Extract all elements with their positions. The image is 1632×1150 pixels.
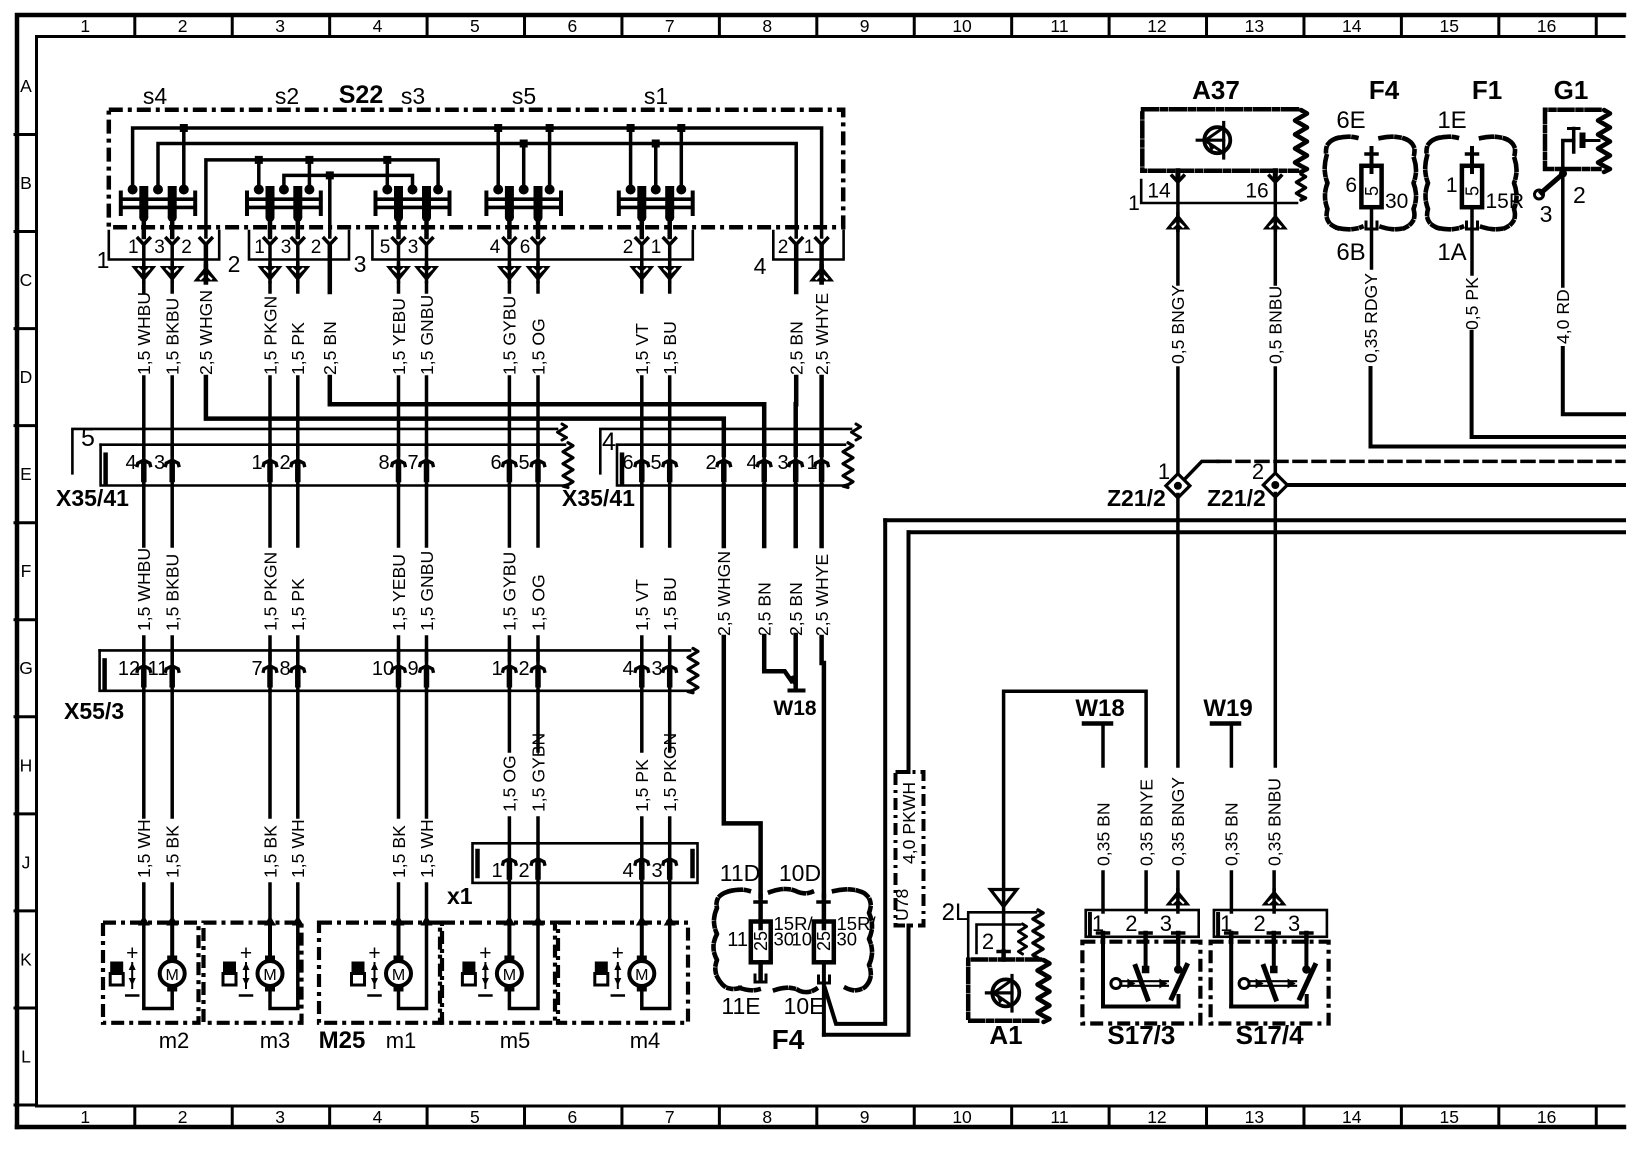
svg-text:8: 8 (378, 452, 389, 474)
connector X35/41 block 5 box (101, 443, 565, 446)
wire 2,5 BN below X35/41-4 pin4 (762, 486, 767, 547)
svg-text:1,5 BU: 1,5 BU (660, 577, 680, 631)
svg-text:1,5 BK: 1,5 BK (389, 825, 409, 878)
switch S17/3 internals (1101, 942, 1105, 1007)
A37 pin 14 feed arrow (1176, 179, 1180, 230)
wire fuse10 to line A (825, 520, 885, 1024)
svg-text:16: 16 (1537, 16, 1556, 36)
wire 0,35 BNGY Z21 to S17/3 (1176, 495, 1180, 767)
svg-text:5: 5 (470, 16, 480, 36)
svg-text:2,5 BN: 2,5 BN (787, 321, 807, 375)
svg-text:10: 10 (791, 929, 812, 950)
svg-text:0,35 BNGY: 0,35 BNGY (1168, 777, 1188, 866)
connector bracket 2 (s2 pins) (249, 231, 349, 260)
svg-text:11: 11 (727, 929, 748, 951)
svg-text:7: 7 (665, 1107, 675, 1127)
svg-text:J: J (22, 852, 31, 872)
svg-text:s4: s4 (143, 83, 168, 109)
svg-text:2: 2 (982, 929, 994, 954)
svg-text:S17/4: S17/4 (1236, 1020, 1304, 1050)
svg-text:1,5 VT: 1,5 VT (632, 579, 652, 631)
wires row D under labels (142, 283, 146, 292)
svg-text:13: 13 (1245, 16, 1264, 36)
svg-text:4,0 PKWH: 4,0 PKWH (899, 782, 919, 864)
svg-text:X35/41: X35/41 (562, 485, 635, 511)
svg-text:M25: M25 (319, 1027, 366, 1054)
svg-text:3: 3 (651, 658, 662, 680)
svg-text:2: 2 (228, 251, 241, 277)
fuse 11 bottom stub 11E (758, 962, 763, 981)
svg-text:3: 3 (354, 251, 367, 277)
svg-text:+: + (612, 942, 624, 965)
svg-text:M: M (635, 967, 648, 984)
svg-text:2: 2 (1252, 459, 1264, 484)
svg-text:1: 1 (251, 452, 262, 474)
wire 0,5 PK to right edge (1472, 332, 1624, 437)
svg-text:6: 6 (1345, 174, 1357, 197)
wire 4,0 PKWH in U78 (907, 532, 911, 772)
fuse 10 bottom wiring (822, 962, 826, 1035)
svg-text:3: 3 (408, 237, 419, 258)
svg-text:2: 2 (178, 1107, 188, 1127)
connector bracket 1 (s4 pins) (109, 231, 219, 260)
wire WHGN reroute to X35/41-4 pin2 (206, 377, 724, 455)
svg-text:10E: 10E (784, 993, 825, 1019)
svg-text:1,5 PK: 1,5 PK (288, 322, 308, 375)
svg-text:2: 2 (705, 452, 716, 474)
svg-text:M: M (392, 967, 405, 984)
switch s1 (617, 193, 621, 215)
svg-text:1: 1 (97, 247, 110, 273)
svg-text:m2: m2 (159, 1028, 190, 1053)
svg-text:2: 2 (311, 237, 322, 258)
window motor m5 box (442, 923, 555, 1023)
switch assembly S22 box (109, 110, 843, 228)
svg-text:s5: s5 (512, 83, 536, 109)
svg-text:9: 9 (860, 16, 870, 36)
svg-text:16: 16 (1245, 180, 1268, 203)
A1 bracket outer (968, 912, 1036, 959)
svg-text:2,5 BN: 2,5 BN (755, 582, 775, 636)
svg-text:14: 14 (1342, 1107, 1362, 1127)
svg-text:1,5 GNBU: 1,5 GNBU (417, 551, 437, 631)
wires x1 to motors (508, 883, 512, 923)
svg-text:14: 14 (1147, 180, 1171, 203)
switch S17/4 internals (1229, 942, 1233, 1007)
svg-text:M: M (166, 967, 179, 984)
svg-text:2,5 BN: 2,5 BN (320, 321, 340, 375)
G1 switch lever (1559, 170, 1567, 178)
svg-text:F4: F4 (1369, 75, 1400, 105)
svg-text:10: 10 (372, 658, 394, 680)
wire 2,5 WHGN to fuse 11D (724, 637, 761, 896)
svg-text:4: 4 (373, 1107, 383, 1127)
svg-text:1,5 GNBU: 1,5 GNBU (417, 295, 437, 375)
svg-text:1,5 YEBU: 1,5 YEBU (389, 554, 409, 631)
dashed wire from Z21/2-1 to right edge (1185, 461, 1218, 478)
connector bracket 3 (s3 s5 s1 pins) (372, 231, 692, 260)
svg-text:6: 6 (520, 237, 531, 258)
node Z21/2 pin 2 (1263, 473, 1287, 497)
svg-text:3: 3 (1288, 911, 1300, 936)
svg-text:W18: W18 (1075, 695, 1124, 722)
svg-text:1E: 1E (1437, 107, 1466, 134)
wires to x1 connector (508, 691, 512, 751)
svg-text:H: H (20, 755, 33, 775)
wire WHYE down to X35/41-4 pin1 (819, 377, 824, 455)
window motor m2 box (103, 923, 199, 1023)
svg-text:16: 16 (1537, 1107, 1556, 1127)
svg-text:2: 2 (778, 237, 789, 258)
svg-text:30: 30 (837, 929, 858, 950)
wire 2,5 WHYE to fuse 10D (819, 637, 824, 663)
svg-text:3: 3 (275, 16, 285, 36)
svg-text:F4: F4 (772, 1024, 805, 1055)
component A37 box (1142, 109, 1297, 171)
pin chevrons below S22 (137, 237, 151, 245)
svg-text:M: M (263, 967, 276, 984)
svg-text:X35/41: X35/41 (56, 485, 129, 511)
svg-text:4: 4 (602, 428, 616, 456)
svg-text:0,35 RDGY: 0,35 RDGY (1361, 273, 1381, 363)
svg-text:0,5 BNBU: 0,5 BNBU (1266, 286, 1286, 364)
svg-text:2: 2 (623, 237, 634, 258)
svg-text:8: 8 (279, 658, 290, 680)
svg-text:1: 1 (80, 16, 90, 36)
wire from Z21/2-2 to right edge (1284, 483, 1624, 487)
motor m5 connector symbol (462, 962, 475, 974)
wire 4,0 RD (1561, 174, 1565, 287)
svg-text:+: + (126, 942, 138, 965)
svg-text:4: 4 (746, 452, 757, 474)
motor m1 connector symbol (352, 962, 365, 974)
svg-text:11E: 11E (721, 993, 760, 1019)
svg-text:4,0 RD: 4,0 RD (1553, 289, 1573, 344)
svg-text:2: 2 (1253, 911, 1265, 936)
svg-text:4: 4 (373, 16, 383, 36)
connector X35/41 block 5 bracket (72, 429, 557, 473)
svg-text:1,5 PK: 1,5 PK (288, 578, 308, 631)
svg-text:1: 1 (804, 237, 815, 258)
svg-text:6: 6 (567, 16, 577, 36)
motor m1 M circle (386, 961, 411, 986)
svg-text:12: 12 (1147, 16, 1166, 36)
svg-text:5: 5 (81, 424, 95, 452)
svg-text:m1: m1 (386, 1028, 417, 1053)
svg-text:6E: 6E (1336, 107, 1365, 134)
svg-text:m3: m3 (260, 1028, 291, 1053)
svg-text:1,5 OG: 1,5 OG (528, 318, 548, 375)
svg-text:15: 15 (1439, 16, 1458, 36)
svg-text:5: 5 (380, 237, 391, 258)
svg-text:1: 1 (1158, 459, 1170, 484)
ground bar W18 middle (790, 689, 804, 693)
svg-text:0,5 BNGY: 0,5 BNGY (1168, 285, 1188, 364)
svg-text:11: 11 (1050, 16, 1068, 36)
window motor m1 box (319, 923, 440, 1023)
svg-text:A: A (20, 76, 32, 96)
connector X55/3 box (100, 649, 690, 652)
ground arrow W18 (787, 675, 797, 688)
A37 bracket pins (1141, 180, 1297, 203)
switch S17/4 connector box (1214, 910, 1327, 937)
svg-text:1,5 WH: 1,5 WH (134, 819, 154, 878)
svg-text:+: + (240, 942, 252, 965)
svg-text:1: 1 (806, 452, 817, 474)
svg-text:6B: 6B (1336, 239, 1365, 266)
svg-text:1: 1 (491, 860, 502, 882)
switch S17/4 box (1211, 942, 1329, 1024)
motor m4 connector symbol (595, 962, 608, 974)
svg-text:M: M (503, 967, 516, 984)
fuse 10 rectangle (814, 922, 834, 963)
svg-text:1,5 GYBU: 1,5 GYBU (500, 552, 520, 631)
svg-text:4: 4 (490, 237, 501, 258)
svg-text:Z21/2: Z21/2 (1207, 485, 1266, 511)
fuse F1 cloud (1425, 138, 1438, 228)
svg-text:2: 2 (279, 452, 290, 474)
svg-text:0,35 BN: 0,35 BN (1093, 802, 1113, 866)
svg-text:3: 3 (651, 860, 662, 882)
wire net line4 in S22 (284, 175, 413, 189)
svg-text:1: 1 (491, 658, 502, 680)
svg-text:4: 4 (622, 860, 633, 882)
switch s2 (245, 193, 249, 215)
wire line B to right edge (909, 530, 1625, 534)
svg-text:14: 14 (1342, 16, 1362, 36)
svg-text:7: 7 (407, 452, 418, 474)
motor m4 wires (636, 916, 648, 926)
svg-text:12: 12 (1147, 1107, 1166, 1127)
svg-text:G: G (19, 658, 33, 678)
svg-text:1A: 1A (1437, 239, 1466, 266)
A37 pin 16 feed arrow (1274, 179, 1278, 230)
svg-text:Z21/2: Z21/2 (1107, 485, 1166, 511)
svg-text:0,35 BN: 0,35 BN (1222, 802, 1242, 866)
wire 2,5 WHYE below X35/41-4 pin1 (819, 486, 824, 547)
wire BN bracket4 pin2 down (794, 245, 799, 293)
svg-text:11: 11 (1050, 1107, 1068, 1127)
svg-text:1,5 WHBU: 1,5 WHBU (134, 548, 154, 631)
component A1 box (968, 960, 1040, 1021)
svg-text:25: 25 (751, 931, 771, 951)
svg-text:30: 30 (1385, 190, 1408, 213)
svg-text:3: 3 (154, 452, 165, 474)
svg-text:2: 2 (1573, 182, 1586, 208)
motor m3 M circle (258, 961, 283, 986)
svg-text:2: 2 (181, 237, 192, 258)
svg-text:1,5 BKBU: 1,5 BKBU (163, 298, 183, 375)
svg-text:m4: m4 (630, 1028, 661, 1053)
svg-text:x1: x1 (447, 883, 473, 909)
fuse F1 rectangle (1462, 166, 1482, 207)
switch S17/3 box (1082, 942, 1200, 1024)
fuse F4 bottom wire (1370, 207, 1374, 268)
svg-text:1,5 PKGN: 1,5 PKGN (260, 552, 280, 631)
svg-text:1,5 PKGN: 1,5 PKGN (260, 296, 280, 375)
svg-text:1: 1 (254, 237, 265, 258)
svg-text:1: 1 (128, 237, 139, 258)
svg-text:1,5 WHBU: 1,5 WHBU (134, 292, 154, 375)
wire net line2 in S22 (158, 144, 796, 238)
svg-text:A1: A1 (989, 1020, 1022, 1050)
svg-text:4: 4 (622, 658, 633, 680)
switch s3 (374, 193, 378, 215)
svg-text:10D: 10D (779, 860, 821, 886)
svg-text:3: 3 (1540, 201, 1553, 227)
wire 0,35 BNBU Z21 to S17/4 (1274, 494, 1278, 767)
svg-text:7: 7 (251, 658, 262, 680)
A37 amplifier symbol (1204, 127, 1230, 153)
wire BN reroute to X35/41-4 pin4 (330, 377, 764, 455)
window motor m4 box (558, 923, 688, 1023)
frame column ticks (133, 15, 136, 37)
G1 battery symbol (1572, 129, 1576, 153)
svg-text:13: 13 (1245, 1107, 1264, 1127)
svg-text:D: D (20, 367, 33, 387)
svg-text:K: K (20, 949, 32, 969)
switch S17/3 connector box (1086, 910, 1199, 937)
svg-text:+: + (479, 942, 491, 965)
wires row F segments (142, 486, 146, 547)
svg-text:3: 3 (777, 452, 788, 474)
wire 2,5 BN to ground W18 (764, 636, 791, 681)
connector x1 box (473, 843, 698, 883)
feed arrow WHYE up (819, 245, 824, 283)
svg-text:1,5 BKBU: 1,5 BKBU (163, 554, 183, 631)
svg-text:1,5 YEBU: 1,5 YEBU (389, 298, 409, 375)
motor m5 M circle (497, 961, 522, 986)
svg-text:F: F (21, 561, 32, 581)
wire 2,5 WHGN below X35/41-4 (722, 486, 727, 547)
svg-text:1,5 OG: 1,5 OG (500, 755, 520, 812)
svg-text:m5: m5 (500, 1028, 531, 1053)
svg-text:10: 10 (952, 1107, 972, 1127)
fuse F4 rectangle (1361, 166, 1381, 207)
wire 2,5 BN below X35/41-4 pin3 (793, 486, 798, 547)
motor m2 wires (138, 916, 150, 926)
wire 0,5 BNGY A37 to Z21/2-1 (1176, 230, 1180, 284)
svg-text:1,5 PK: 1,5 PK (632, 759, 652, 812)
svg-text:5: 5 (1462, 186, 1482, 196)
motor m2 connector symbol (110, 962, 123, 974)
svg-text:25: 25 (814, 931, 834, 951)
svg-text:2L: 2L (942, 899, 969, 926)
svg-text:0,35 BNYE: 0,35 BNYE (1136, 779, 1156, 866)
fuse 11 rectangle (751, 922, 771, 963)
svg-text:7: 7 (665, 16, 675, 36)
svg-text:F1: F1 (1472, 75, 1502, 105)
window motor m3 box (204, 923, 302, 1023)
direction arrows row C (142, 245, 146, 267)
svg-text:8: 8 (762, 16, 772, 36)
svg-text:10: 10 (952, 16, 972, 36)
svg-text:1,5 GYBU: 1,5 GYBU (500, 296, 520, 375)
switch s4 (119, 193, 123, 215)
svg-text:4: 4 (125, 452, 136, 474)
svg-text:s3: s3 (401, 83, 425, 109)
svg-text:G1: G1 (1554, 75, 1589, 105)
svg-text:S22: S22 (339, 81, 383, 109)
A1 amplifier symbol (992, 979, 1019, 1006)
fuse F1 bottom wire (1470, 207, 1474, 274)
svg-text:B: B (20, 173, 32, 193)
A1 antenna triangle (990, 890, 1016, 907)
svg-text:6: 6 (622, 452, 633, 474)
connector X35/41 block 4 box (617, 443, 845, 446)
wire net line1 in S22 (133, 128, 822, 237)
svg-text:9: 9 (407, 658, 418, 680)
svg-text:2: 2 (518, 658, 529, 680)
svg-text:2: 2 (518, 860, 529, 882)
wire 0,35 RDGY to right edge (1371, 368, 1625, 447)
frame row ticks (15, 133, 37, 136)
wire A1 to S17/3 pin 2 (1004, 691, 1147, 951)
switch s5 (484, 193, 488, 215)
fuse F4 cloud (1325, 138, 1338, 228)
svg-text:W18: W18 (773, 697, 817, 720)
svg-text:0,5 PK: 0,5 PK (1462, 277, 1482, 330)
wire 0,5 BNBU A37 to Z21/2-2 (1274, 230, 1278, 284)
svg-text:0,35 BNBU: 0,35 BNBU (1264, 778, 1284, 866)
svg-text:1,5 PKGN: 1,5 PKGN (660, 733, 680, 812)
svg-text:9: 9 (860, 1107, 870, 1127)
svg-text:3: 3 (281, 237, 292, 258)
svg-text:S17/3: S17/3 (1107, 1020, 1175, 1050)
wire BN s2 pin2 down (328, 245, 333, 293)
svg-text:1: 1 (80, 1107, 90, 1127)
svg-text:8: 8 (762, 1107, 772, 1127)
svg-text:1,5 WH: 1,5 WH (417, 819, 437, 878)
svg-text:A37: A37 (1192, 75, 1240, 105)
svg-text:s2: s2 (275, 83, 299, 109)
svg-text:1,5 BU: 1,5 BU (660, 321, 680, 375)
svg-text:W19: W19 (1203, 695, 1252, 722)
svg-text:4: 4 (754, 253, 767, 279)
svg-text:2,5 BN: 2,5 BN (786, 582, 806, 636)
svg-text:1,5 OG: 1,5 OG (528, 574, 548, 631)
svg-text:3: 3 (1160, 911, 1172, 936)
motor m4 M circle (629, 961, 654, 986)
A1 bracket inner (977, 925, 1021, 954)
wire line A to right edge (885, 518, 1624, 522)
svg-text:2,5 WHYE: 2,5 WHYE (812, 293, 832, 375)
wire 2,5 BN second to ground W18 (793, 635, 798, 688)
svg-text:1,5 WH: 1,5 WH (288, 819, 308, 878)
node Z21/2 pin 1 (1166, 474, 1190, 498)
svg-text:2,5 WHYE: 2,5 WHYE (812, 554, 832, 636)
svg-text:X55/3: X55/3 (64, 698, 124, 724)
svg-text:5: 5 (518, 452, 529, 474)
svg-text:1,5 VT: 1,5 VT (632, 323, 652, 375)
svg-text:L: L (21, 1046, 31, 1066)
component G1 box (1545, 110, 1600, 169)
svg-text:1,5 BK: 1,5 BK (163, 825, 183, 878)
motor m5 wires (503, 916, 515, 926)
svg-text:E: E (20, 464, 32, 484)
wire 4,0 RD to right edge (1563, 348, 1624, 414)
svg-text:5: 5 (1362, 186, 1382, 196)
motor m3 connector symbol (223, 962, 236, 974)
motor m2 M circle (160, 961, 185, 986)
svg-text:+: + (368, 942, 380, 965)
wire net line3 in S22 (206, 160, 438, 237)
svg-text:6: 6 (567, 1107, 577, 1127)
svg-text:1: 1 (1446, 174, 1458, 197)
svg-text:15: 15 (1439, 1107, 1458, 1127)
svg-text:2,5 WHGN: 2,5 WHGN (196, 290, 216, 375)
fuse block F4 cloud outline (714, 891, 741, 989)
